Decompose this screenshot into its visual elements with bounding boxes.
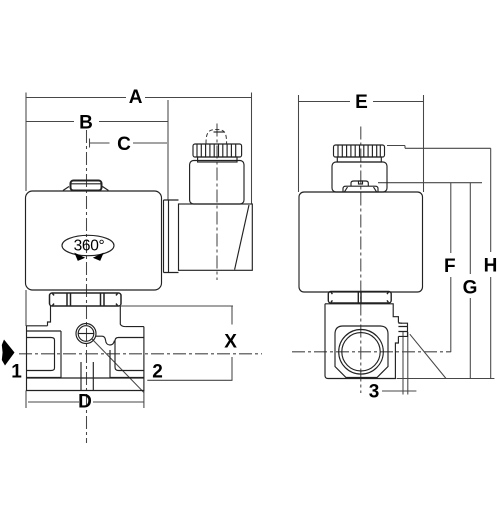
- svg-text:2: 2: [152, 362, 163, 383]
- svg-text:A: A: [129, 87, 143, 108]
- svg-text:X: X: [224, 331, 237, 352]
- svg-text:D: D: [78, 391, 92, 412]
- svg-text:360°: 360°: [74, 237, 105, 254]
- svg-text:1: 1: [11, 362, 22, 383]
- svg-text:B: B: [79, 112, 93, 133]
- svg-text:C: C: [117, 134, 131, 155]
- svg-text:H: H: [484, 256, 498, 277]
- svg-text:F: F: [444, 256, 456, 277]
- svg-text:E: E: [355, 92, 368, 113]
- svg-text:G: G: [463, 278, 478, 299]
- svg-text:3: 3: [369, 382, 380, 403]
